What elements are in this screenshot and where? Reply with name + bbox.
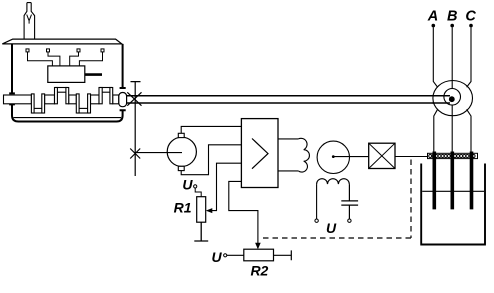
- svg-text:U: U: [182, 176, 193, 192]
- svg-text:U: U: [211, 249, 222, 265]
- svg-text:R1: R1: [174, 199, 192, 215]
- svg-text:B: B: [447, 8, 457, 24]
- svg-text:A: A: [427, 8, 438, 24]
- svg-text:C: C: [465, 8, 476, 24]
- svg-text:U: U: [326, 220, 337, 236]
- svg-text:R2: R2: [250, 263, 268, 279]
